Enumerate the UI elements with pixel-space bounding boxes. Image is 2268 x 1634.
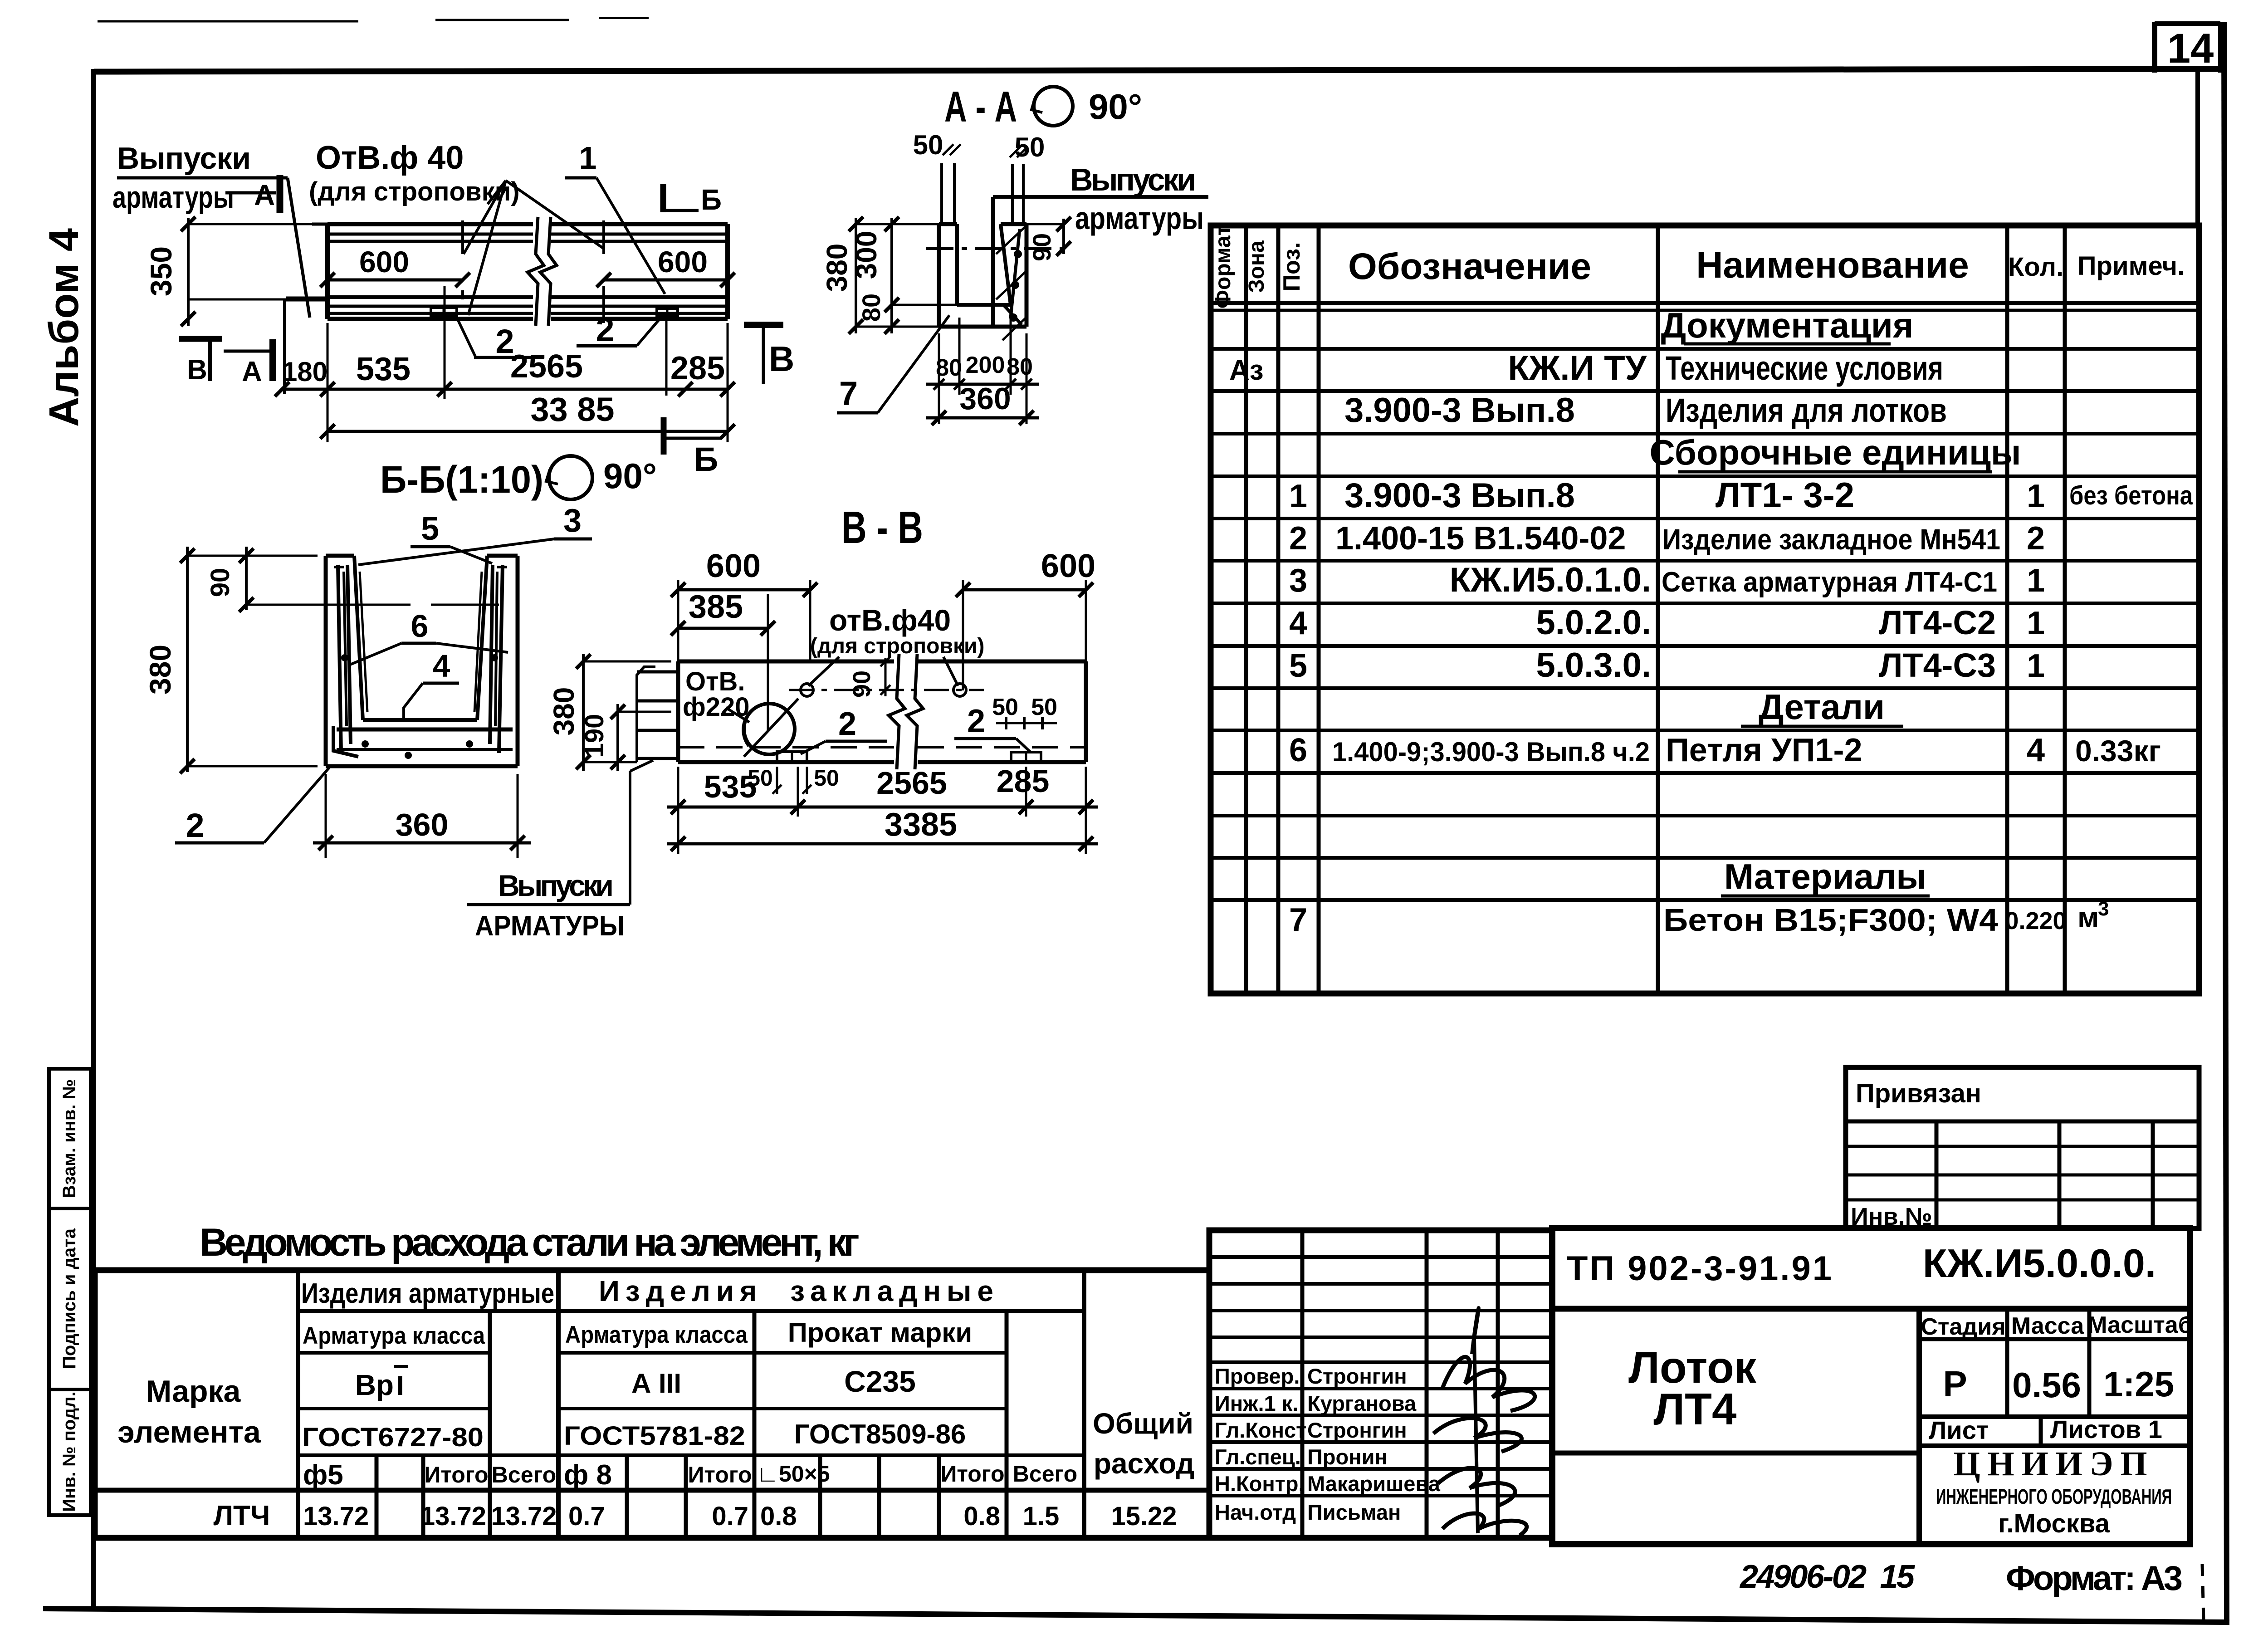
svg-text:1.400-9;3.900-3 Вып.8 ч.2: 1.400-9;3.900-3 Вып.8 ч.2 xyxy=(1332,737,1650,767)
svg-text:13.72: 13.72 xyxy=(303,1502,369,1531)
svg-text:380: 380 xyxy=(821,244,853,292)
svg-text:В - В: В - В xyxy=(841,502,923,553)
svg-text:2: 2 xyxy=(1289,520,1307,557)
svg-text:2: 2 xyxy=(2027,520,2045,557)
svg-text:4: 4 xyxy=(2027,732,2045,768)
svg-text:элемента: элемента xyxy=(117,1415,261,1449)
svg-text:А: А xyxy=(242,356,262,387)
svg-text:∟50×5: ∟50×5 xyxy=(757,1461,830,1487)
svg-text:50: 50 xyxy=(814,765,839,791)
svg-text:Итого: Итого xyxy=(688,1462,752,1487)
svg-text:ТП 902-3-91.91: ТП 902-3-91.91 xyxy=(1567,1249,1833,1288)
svg-text:180: 180 xyxy=(282,357,327,387)
svg-text:Пронин: Пронин xyxy=(1307,1445,1388,1469)
svg-text:0.56: 0.56 xyxy=(2012,1365,2081,1405)
svg-text:3.900-3 Вып.8: 3.900-3 Вып.8 xyxy=(1344,476,1575,515)
svg-text:0.7: 0.7 xyxy=(568,1502,605,1531)
svg-text:Сборочные единицы: Сборочные единицы xyxy=(1650,432,2021,472)
svg-text:5.0.3.0.: 5.0.3.0. xyxy=(1536,646,1651,685)
svg-text:380: 380 xyxy=(547,687,580,736)
svg-text:Примеч.: Примеч. xyxy=(2077,251,2185,281)
svg-text:90°: 90° xyxy=(603,456,657,496)
svg-text:600: 600 xyxy=(706,548,761,584)
svg-text:С235: С235 xyxy=(844,1365,916,1398)
svg-text:отВ.ф40: отВ.ф40 xyxy=(829,603,951,637)
svg-text:13.72: 13.72 xyxy=(420,1502,486,1531)
svg-text:Сетка арматурная ЛТ4-С1: Сетка арматурная ЛТ4-С1 xyxy=(1662,567,1997,598)
svg-text:Инж.1 к.: Инж.1 к. xyxy=(1215,1391,1298,1415)
svg-text:А - А: А - А xyxy=(944,83,1017,131)
svg-text:ЛТ4-С2: ЛТ4-С2 xyxy=(1879,604,1996,641)
svg-text:2: 2 xyxy=(186,807,204,844)
svg-text:Гл.Конст: Гл.Конст xyxy=(1215,1418,1306,1442)
svg-text:Курганова: Курганова xyxy=(1307,1391,1417,1415)
svg-text:Детали: Детали xyxy=(1759,687,1885,727)
svg-text:90: 90 xyxy=(1027,233,1056,261)
svg-text:535: 535 xyxy=(704,769,757,804)
svg-text:Итого: Итого xyxy=(424,1462,488,1487)
svg-text:Всего: Всего xyxy=(492,1462,556,1487)
svg-text:4: 4 xyxy=(433,648,450,684)
svg-text:Арматура класса: Арматура класса xyxy=(303,1322,485,1349)
svg-text:5: 5 xyxy=(1289,648,1307,684)
svg-text:1.5: 1.5 xyxy=(1023,1502,1060,1531)
svg-text:Взам. инв. №: Взам. инв. № xyxy=(59,1079,79,1198)
svg-text:арматуры: арматуры xyxy=(112,180,234,215)
svg-text:Лист: Лист xyxy=(1929,1416,1989,1444)
svg-text:ЛТЧ: ЛТЧ xyxy=(214,1500,270,1531)
svg-text:ф5: ф5 xyxy=(303,1459,343,1491)
svg-text:80: 80 xyxy=(936,355,962,381)
svg-text:2: 2 xyxy=(596,311,614,348)
svg-text:1: 1 xyxy=(2027,478,2045,514)
svg-text:Листов 1: Листов 1 xyxy=(2050,1415,2162,1443)
svg-text:1: 1 xyxy=(1289,478,1307,514)
svg-text:15.22: 15.22 xyxy=(1111,1502,1177,1531)
svg-text:ф 8: ф 8 xyxy=(564,1459,612,1491)
svg-text:ЦНИИЭП: ЦНИИЭП xyxy=(1953,1445,2154,1483)
svg-text:4: 4 xyxy=(1289,605,1307,641)
svg-text:А III: А III xyxy=(631,1368,681,1399)
svg-text:ИНЖЕНЕРНОГО ОБОРУДОВАНИЯ: ИНЖЕНЕРНОГО ОБОРУДОВАНИЯ xyxy=(1936,1485,2172,1508)
svg-text:Инв. № подл.: Инв. № подл. xyxy=(59,1391,79,1512)
svg-text:3: 3 xyxy=(1289,563,1307,599)
svg-text:В: В xyxy=(769,339,794,379)
svg-text:Петля УП1-2: Петля УП1-2 xyxy=(1666,732,1862,768)
svg-text:1: 1 xyxy=(579,140,597,176)
svg-text:385: 385 xyxy=(689,589,743,625)
svg-text:1.400-15 В1.540-02: 1.400-15 В1.540-02 xyxy=(1335,520,1626,557)
svg-text:Марка: Марка xyxy=(146,1374,241,1409)
svg-text:КЖ.И ТУ: КЖ.И ТУ xyxy=(1508,349,1647,387)
svg-text:Документация: Документация xyxy=(1661,305,1914,345)
svg-text:7: 7 xyxy=(1289,902,1307,938)
svg-text:Общий: Общий xyxy=(1093,1407,1193,1440)
svg-text:360: 360 xyxy=(959,382,1011,416)
svg-text:Письман: Письман xyxy=(1307,1500,1401,1524)
svg-text:90: 90 xyxy=(205,568,235,597)
svg-text:ГОСТ8509-86: ГОСТ8509-86 xyxy=(794,1419,966,1449)
svg-text:А: А xyxy=(254,179,275,211)
svg-text:6: 6 xyxy=(411,608,429,644)
svg-text:Технические условия: Технические условия xyxy=(1666,349,1943,387)
svg-text:ЛТ4-С3: ЛТ4-С3 xyxy=(1879,646,1996,684)
svg-text:Вр: Вр xyxy=(355,1369,394,1401)
svg-text:0.33кг: 0.33кг xyxy=(2075,734,2161,768)
svg-text:Масса: Масса xyxy=(2011,1313,2084,1339)
svg-text:50: 50 xyxy=(913,130,943,160)
svg-text:Изделия для лотков: Изделия для лотков xyxy=(1666,391,1947,429)
svg-text:1: 1 xyxy=(2027,648,2045,684)
svg-text:Формат: Формат xyxy=(1211,225,1235,308)
svg-text:арматуры: арматуры xyxy=(1075,201,1204,236)
svg-text:Зона: Зона xyxy=(1245,240,1269,293)
svg-text:1: 1 xyxy=(2027,563,2045,599)
svg-text:3385: 3385 xyxy=(885,807,957,843)
svg-text:Б-Б(1:10): Б-Б(1:10) xyxy=(380,458,543,501)
svg-text:600: 600 xyxy=(1041,548,1095,584)
svg-text:ГОСТ5781-82: ГОСТ5781-82 xyxy=(564,1421,745,1451)
svg-text:600: 600 xyxy=(359,245,409,279)
svg-text:Изделия закладные: Изделия закладные xyxy=(599,1275,993,1307)
svg-text:Б: Б xyxy=(694,440,718,478)
svg-text:В: В xyxy=(187,354,207,386)
svg-text:Выпуски: Выпуски xyxy=(498,869,614,902)
svg-text:КЖ.И5.0.0.0.: КЖ.И5.0.0.0. xyxy=(1923,1241,2156,1286)
svg-text:285: 285 xyxy=(997,763,1050,799)
svg-text:1: 1 xyxy=(2027,605,2045,641)
svg-text:14: 14 xyxy=(2167,25,2214,72)
svg-text:Инв.№: Инв.№ xyxy=(1851,1203,1932,1230)
svg-text:Макаришева: Макаришева xyxy=(1307,1472,1441,1496)
svg-text:33 85: 33 85 xyxy=(530,391,614,428)
svg-text:6: 6 xyxy=(1289,732,1307,768)
svg-text:2: 2 xyxy=(967,703,985,739)
svg-text:Альбом 4: Альбом 4 xyxy=(41,228,87,427)
svg-text:50: 50 xyxy=(992,694,1018,720)
svg-text:13.72: 13.72 xyxy=(491,1502,557,1531)
svg-text:Формат: А3: Формат: А3 xyxy=(2006,1559,2183,1598)
svg-text:КЖ.И5.0.1.0.: КЖ.И5.0.1.0. xyxy=(1450,561,1651,599)
svg-text:расход: расход xyxy=(1094,1447,1194,1480)
svg-text:80: 80 xyxy=(857,294,885,322)
svg-text:(для строповки): (для строповки) xyxy=(810,634,984,658)
svg-text:Арматура класса: Арматура класса xyxy=(565,1321,748,1348)
svg-text:Ведомость расхода стали на эле: Ведомость расхода стали на элемент, кг xyxy=(200,1221,860,1264)
svg-text:Бетон В15;F300; W4: Бетон В15;F300; W4 xyxy=(1663,902,1998,938)
svg-text:Изделия арматурные: Изделия арматурные xyxy=(301,1278,554,1309)
svg-text:АРМАТУРЫ: АРМАТУРЫ xyxy=(475,910,625,942)
svg-text:Стронгин: Стронгин xyxy=(1307,1364,1407,1388)
svg-text:Р: Р xyxy=(1943,1364,1967,1404)
svg-text:Подпись и дата: Подпись и дата xyxy=(59,1228,79,1369)
svg-text:350: 350 xyxy=(144,246,178,296)
svg-text:2: 2 xyxy=(838,706,856,742)
svg-text:Прокат марки: Прокат марки xyxy=(788,1317,972,1348)
svg-text:I: I xyxy=(396,1370,404,1401)
svg-text:Н.Контр.: Н.Контр. xyxy=(1215,1472,1305,1496)
svg-text:Материалы: Материалы xyxy=(1724,856,1926,896)
svg-text:ГОСТ6727-80: ГОСТ6727-80 xyxy=(302,1423,484,1452)
svg-text:600: 600 xyxy=(658,245,708,279)
svg-text:0.8: 0.8 xyxy=(963,1502,1000,1531)
svg-text:Всего: Всего xyxy=(1013,1461,1077,1487)
svg-text:3.900-3 Вып.8: 3.900-3 Вып.8 xyxy=(1344,391,1575,430)
svg-text:Выпуски: Выпуски xyxy=(117,141,251,176)
svg-text:0.8: 0.8 xyxy=(760,1502,797,1531)
svg-text:80: 80 xyxy=(1007,354,1033,380)
svg-text:200: 200 xyxy=(966,352,1005,378)
svg-text:50: 50 xyxy=(1031,694,1057,720)
svg-text:Выпуски: Выпуски xyxy=(1070,162,1196,197)
svg-text:3: 3 xyxy=(2098,898,2109,920)
svg-text:24906-02 15: 24906-02 15 xyxy=(1739,1559,1915,1595)
svg-text:Кол.: Кол. xyxy=(2008,252,2063,282)
svg-text:г.Москва: г.Москва xyxy=(1998,1509,2110,1538)
svg-text:Изделие закладное Мн541: Изделие закладное Мн541 xyxy=(1662,523,2000,556)
svg-text:Гл.спец.: Гл.спец. xyxy=(1215,1445,1301,1469)
svg-text:5: 5 xyxy=(421,511,439,547)
svg-text:3: 3 xyxy=(563,503,582,539)
svg-text:380: 380 xyxy=(143,645,177,695)
svg-text:ЛТ4: ЛТ4 xyxy=(1653,1384,1736,1434)
svg-text:без бетона: без бетона xyxy=(2069,481,2193,510)
svg-text:2565: 2565 xyxy=(510,348,583,385)
svg-text:Нач.отд: Нач.отд xyxy=(1215,1500,1296,1524)
svg-text:Поз.: Поз. xyxy=(1279,242,1305,292)
svg-text:1:25: 1:25 xyxy=(2103,1364,2174,1404)
svg-text:ОтВ.ф 40: ОтВ.ф 40 xyxy=(316,140,464,176)
svg-text:Стронгин: Стронгин xyxy=(1307,1418,1407,1442)
svg-text:2565: 2565 xyxy=(876,765,947,801)
svg-text:Наименование: Наименование xyxy=(1696,245,1969,286)
svg-text:Провер.: Провер. xyxy=(1215,1364,1300,1388)
svg-text:Стадия: Стадия xyxy=(1921,1314,2005,1340)
svg-text:0.7: 0.7 xyxy=(712,1502,748,1531)
svg-text:Аз: Аз xyxy=(1229,355,1264,386)
svg-text:ЛТ1- 3-2: ЛТ1- 3-2 xyxy=(1716,475,1854,515)
svg-text:90°: 90° xyxy=(1089,87,1142,127)
svg-text:Привязан: Привязан xyxy=(1856,1079,1981,1108)
svg-text:Б: Б xyxy=(701,183,722,216)
svg-text:м: м xyxy=(2077,901,2099,934)
svg-text:90: 90 xyxy=(848,670,875,698)
svg-text:360: 360 xyxy=(396,807,449,842)
svg-text:Обозначение: Обозначение xyxy=(1348,246,1591,287)
svg-text:0.220: 0.220 xyxy=(2005,907,2066,934)
svg-text:Итого: Итого xyxy=(940,1461,1004,1487)
svg-text:7: 7 xyxy=(839,375,858,412)
svg-text:Масштаб: Масштаб xyxy=(2087,1312,2193,1338)
svg-text:285: 285 xyxy=(670,350,725,386)
svg-text:535: 535 xyxy=(356,351,411,387)
svg-text:5.0.2.0.: 5.0.2.0. xyxy=(1536,603,1651,642)
